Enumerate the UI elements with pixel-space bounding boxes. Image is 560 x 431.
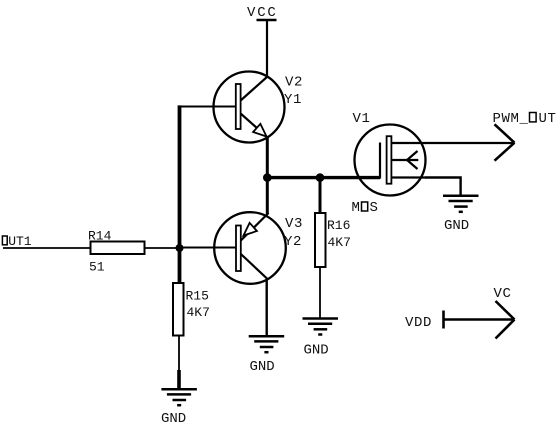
node dot A <box>263 173 272 182</box>
svg-text:UT: UT <box>539 111 557 127</box>
svg-text:UT1: UT1 <box>8 234 32 249</box>
svg-text:V1: V1 <box>353 111 371 127</box>
svg-text:R15: R15 <box>186 289 209 304</box>
resistor R15 <box>173 283 184 336</box>
wire V2 emitter down to node <box>266 136 269 178</box>
wire R14 to junction <box>145 247 180 249</box>
svg-text:Y1: Y1 <box>284 92 302 108</box>
port VDD tick <box>442 311 445 329</box>
svg-text:GND: GND <box>161 411 186 427</box>
svg-text:R14: R14 <box>88 229 112 244</box>
wire junction to V3 base <box>180 247 236 249</box>
power VCC bar <box>257 19 277 22</box>
wire R16 to GND <box>319 267 321 318</box>
svg-text:GND: GND <box>304 343 329 359</box>
node dot B <box>316 173 325 182</box>
ground GND (R15) <box>161 389 197 405</box>
ground GND (R16) <box>303 319 339 335</box>
wire node to V3 emitter <box>266 178 269 214</box>
wire node B down to R16 <box>319 178 322 213</box>
port arrow PWM_OUT <box>495 124 515 160</box>
wire V1 drain to PWM_OUT <box>425 142 514 144</box>
label MOS <box>352 200 378 216</box>
wire V3 collector to GND <box>266 278 268 336</box>
svg-text:VC: VC <box>494 286 512 302</box>
resistor R16 <box>315 213 326 267</box>
wire OUT1 to R14 <box>3 247 91 249</box>
junction node dot <box>176 244 184 252</box>
svg-text:PWM_: PWM_ <box>493 111 529 127</box>
transistor Q V3 <box>214 212 286 284</box>
transistor Q V2 <box>214 72 285 143</box>
port OUT1 label <box>2 234 31 249</box>
svg-text:4K7: 4K7 <box>187 305 210 320</box>
svg-text:GND: GND <box>250 359 275 375</box>
svg-text:GND: GND <box>444 218 469 234</box>
wire thick horizontal net <box>267 176 380 179</box>
wire VCC to V2 collector <box>266 20 268 78</box>
svg-text:VCC: VCC <box>247 5 278 21</box>
svg-text:V3: V3 <box>285 216 303 232</box>
wire V2 base <box>180 106 236 108</box>
wire thick vertical net <box>178 105 182 283</box>
port arrow VC <box>496 301 515 339</box>
svg-text:4K7: 4K7 <box>328 235 351 250</box>
svg-text:R16: R16 <box>327 218 350 233</box>
resistor R14 <box>91 242 145 255</box>
wire V1 source to GND <box>425 178 461 196</box>
ground GND (V3) <box>249 336 285 352</box>
svg-text:V2: V2 <box>285 75 303 91</box>
svg-text:M: M <box>352 200 360 216</box>
label PWM_OUT <box>493 111 557 127</box>
svg-text:S: S <box>370 200 378 216</box>
svg-text:Y2: Y2 <box>284 234 302 250</box>
ground GND (V1 source) <box>443 196 479 212</box>
svg-text:VDD: VDD <box>405 315 432 331</box>
wire VDD to VC arrow <box>444 318 515 320</box>
mosfet V1 <box>355 125 426 196</box>
svg-text:51: 51 <box>89 260 105 275</box>
wire R15 to GND <box>178 336 180 372</box>
